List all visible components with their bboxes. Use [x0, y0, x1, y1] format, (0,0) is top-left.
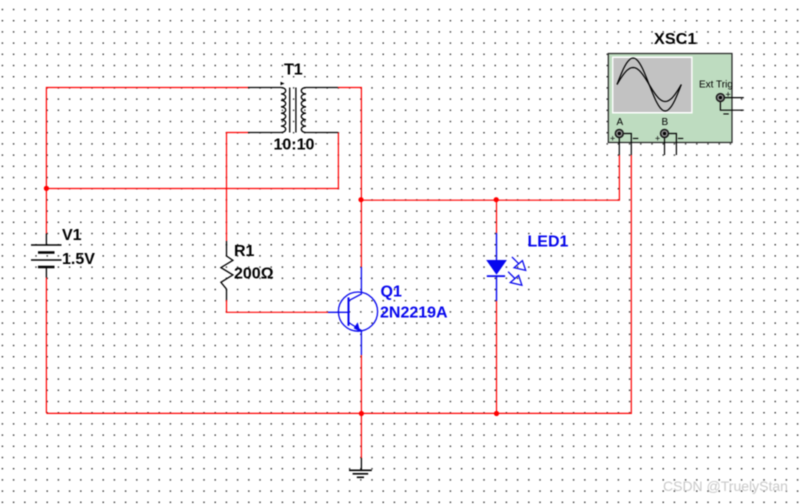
svg-text:B: B — [662, 117, 669, 128]
wire T1 secondary top to Q1 collector node — [338, 88, 362, 201]
svg-text:LED1: LED1 — [528, 234, 569, 251]
wire Q1 emitter to rail — [360, 355, 362, 413]
wire battery node to T1 secondary bottom — [46, 132, 338, 188]
scope wire A plus — [618, 137, 620, 155]
LED emission arrow 2 — [508, 272, 522, 286]
svg-text:–: – — [678, 133, 684, 145]
svg-text:+: + — [610, 134, 615, 144]
node LED top junction — [494, 197, 499, 202]
scope wire ext trig minus — [720, 102, 743, 111]
LED triangle — [486, 260, 507, 275]
svg-text:200Ω: 200Ω — [234, 266, 274, 283]
wire collector node down to Q1 collector — [360, 200, 362, 267]
wire top from V1 node up-left to T1 primary top — [46, 88, 248, 189]
terminal Ext Trig — [717, 94, 725, 102]
transistor emitter arrow — [354, 322, 361, 331]
svg-text:Q1: Q1 — [381, 284, 402, 301]
scope wire B plus — [664, 137, 666, 155]
wire LED top branch — [496, 200, 498, 233]
wire bottom rail — [46, 155, 631, 413]
wire collector node horizontal to scope A+ — [361, 155, 619, 200]
wire R1 bottom to Q1 base — [227, 300, 329, 312]
terminal A — [615, 130, 623, 138]
LED1 — [487, 233, 505, 301]
wire T1 primary bottom to R1 top — [227, 133, 249, 242]
oscilloscope screen — [612, 57, 693, 114]
wire battery minus down to bottom rail — [45, 278, 47, 414]
svg-text:XSC1: XSC1 — [654, 31, 697, 48]
node LED bottom junction — [494, 411, 499, 416]
svg-text:CSDN @TruelyStan: CSDN @TruelyStan — [663, 478, 788, 494]
oscilloscope trace big — [617, 58, 681, 111]
LED emission arrow 1 — [512, 257, 526, 271]
scope wire B minus hook — [668, 134, 676, 156]
svg-text:–: – — [723, 108, 729, 120]
terminal B — [661, 130, 669, 138]
ground — [349, 458, 372, 477]
transistor Q1 — [328, 267, 378, 355]
wire battery node down to battery plus — [45, 189, 47, 234]
svg-text:1.5V: 1.5V — [62, 251, 95, 268]
transformer polarity arrow — [281, 82, 285, 85]
scope wire ext trig plus — [724, 97, 743, 99]
svg-text:–: – — [633, 133, 639, 145]
svg-text:+: + — [726, 90, 731, 100]
svg-text:R1: R1 — [234, 243, 255, 260]
wire ground tap — [360, 413, 362, 458]
svg-text:T1: T1 — [284, 62, 303, 79]
wire LED bottom to rail — [496, 301, 498, 413]
svg-text:2N2219A: 2N2219A — [380, 305, 448, 322]
battery V1 — [31, 234, 62, 278]
svg-text:+: + — [655, 134, 660, 144]
node collector junction — [358, 197, 363, 202]
oscilloscope trace small — [617, 68, 681, 102]
node battery top junction — [44, 186, 49, 191]
oscilloscope XSC1 body — [608, 54, 732, 143]
node emitter-ground junction — [359, 411, 364, 416]
resistor R1 — [221, 241, 233, 300]
svg-text:V1: V1 — [62, 227, 82, 244]
transformer T1 — [248, 88, 338, 133]
svg-text:10:10: 10:10 — [274, 137, 315, 154]
svg-text:A: A — [617, 117, 624, 128]
scope wire A minus hook — [623, 134, 631, 156]
